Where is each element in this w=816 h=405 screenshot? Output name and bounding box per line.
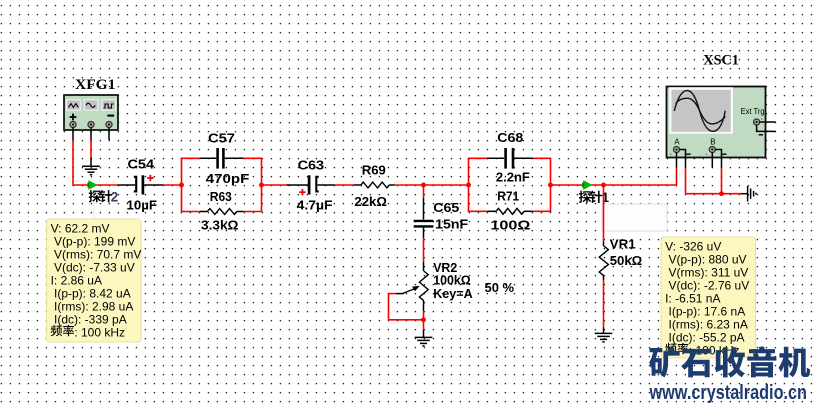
probe label 探针2 [89, 190, 119, 205]
svg-text:R69: R69 [362, 162, 386, 177]
svg-text:I: -6.51 nA: I: -6.51 nA [665, 292, 720, 306]
capacitor C57 [218, 148, 224, 169]
watermark www.crystalradio.cn [649, 382, 807, 404]
svg-text:15nF: 15nF [435, 216, 468, 231]
watermark 矿石收音机 [649, 346, 810, 377]
value label 3.3kΩ [201, 218, 239, 233]
svg-text:Key=A: Key=A [433, 286, 473, 301]
ground [595, 333, 613, 342]
label VR1 [610, 236, 636, 251]
node F junction [548, 183, 553, 188]
wire node G to VR1 [603, 185, 605, 246]
svg-text:R71: R71 [497, 188, 519, 203]
pin stub XFG1 - terminal [108, 127, 110, 140]
svg-text:I(rms): 2.98 uA: I(rms): 2.98 uA [54, 300, 133, 314]
value label Key=A [433, 286, 473, 301]
wire box2 bottom right [533, 210, 552, 212]
ground [415, 337, 433, 346]
svg-text:C65: C65 [433, 200, 459, 215]
ground [748, 186, 756, 202]
wire box1 top right [244, 157, 263, 159]
wire box1 to C63 [262, 184, 287, 186]
svg-text:I(rms): 6.23 nA: I(rms): 6.23 nA [669, 318, 748, 332]
probe label 探针1 [579, 190, 610, 205]
value label 100Ω [490, 217, 531, 232]
svg-text:50 %: 50 % [485, 280, 515, 295]
svg-text:4.7µF: 4.7µF [297, 197, 333, 212]
node A junction [179, 183, 184, 188]
resistor R69 lead left [354, 184, 361, 186]
pin stub XFG1 common terminal [90, 127, 92, 140]
label C54 [128, 157, 155, 172]
svg-text:A: A [674, 137, 680, 146]
node H junction [719, 191, 724, 196]
wire XFG1 common down [90, 140, 92, 157]
label C65 [433, 200, 459, 215]
wire box2 top right [533, 157, 552, 159]
resistor R71 [496, 208, 524, 214]
wire node D to ground [423, 320, 425, 338]
capacitor C54 [134, 175, 143, 194]
probe 探针1 arrow [583, 180, 592, 190]
wire box1 bottom right [244, 211, 263, 213]
value label 4.7µF [297, 197, 333, 212]
capacitor C54 lead right [144, 184, 163, 186]
node G junction [601, 183, 606, 188]
measurement box probe 1 [661, 237, 756, 358]
capacitor C54 polarity + [147, 175, 153, 181]
svg-text:V(dc): -2.76 uV: V(dc): -2.76 uV [669, 279, 750, 293]
probe tooltip box [602, 204, 667, 231]
svg-text:I(p-p): 8.42 uA: I(p-p): 8.42 uA [54, 287, 131, 301]
svg-text:B: B [710, 137, 715, 146]
wire ground lead [90, 157, 92, 166]
wire box1 top left [181, 157, 200, 159]
label C63 [298, 157, 325, 172]
svg-text:C54: C54 [128, 157, 155, 172]
node C junction [421, 183, 426, 188]
pin XSC1 B- [715, 150, 721, 168]
wire C63 to R69 [335, 184, 354, 186]
node E junction [466, 183, 471, 188]
value label 22kΩ [354, 194, 387, 209]
svg-text:V: -326 uV: V: -326 uV [665, 240, 721, 254]
wire box1 bottom left [181, 211, 200, 213]
value label 50kΩ [610, 253, 643, 268]
wire box1 left edge [181, 158, 183, 211]
label XFG1 [75, 77, 116, 93]
svg-text:V(rms): 311 uV: V(rms): 311 uV [669, 266, 749, 280]
capacitor C63 polarity + [299, 189, 305, 195]
svg-text:XFG1: XFG1 [75, 77, 116, 93]
svg-text:2: 2 [111, 190, 118, 205]
resistor R69 [361, 182, 389, 188]
potentiometer VR2 lead bottom [423, 301, 425, 311]
svg-text:470pF: 470pF [206, 171, 250, 186]
svg-text:Ext Trg: Ext Trg [741, 107, 765, 116]
svg-text:V: 62.2 mV: V: 62.2 mV [51, 222, 110, 236]
label VR2 [433, 260, 457, 275]
value label 470pF [206, 171, 250, 186]
label C68 [497, 130, 523, 145]
measurement box probe 2 [47, 219, 142, 342]
capacitor C63 [309, 175, 319, 194]
capacitor C63 lead left [286, 184, 307, 186]
svg-text:I(p-p): 17.6 nA: I(p-p): 17.6 nA [669, 305, 746, 319]
probe 探针2 arrow [88, 180, 97, 190]
wire XFG1 + down to main node [73, 140, 118, 186]
node B junction [259, 183, 264, 188]
value label 10µF [127, 197, 158, 212]
wire C54 to node A [163, 184, 182, 186]
svg-text:www.crystalradio.cn: www.crystalradio.cn [649, 382, 807, 404]
svg-text:VR1: VR1 [610, 236, 636, 251]
capacitor C65 lead bottom [423, 228, 425, 238]
wire scope A- to ground rail [686, 168, 742, 194]
wire box2 top left [468, 157, 488, 159]
resistor R69 lead right [389, 184, 394, 186]
svg-text:V(p-p): 880 uV: V(p-p): 880 uV [669, 253, 747, 267]
label XSC1 [703, 52, 739, 68]
ground lead [741, 193, 748, 195]
wire box1 right edge [261, 158, 263, 211]
pin XSC1 Ext Trg + [760, 121, 776, 123]
svg-text:R63: R63 [210, 189, 232, 204]
wire scope B- to ground rail [721, 168, 723, 194]
svg-text:C63: C63 [298, 157, 325, 172]
potentiometer VR2 wiper arrow [403, 286, 420, 294]
function generator XFG1 [64, 95, 118, 130]
svg-text:C68: C68 [497, 130, 523, 145]
svg-text:2.2nF: 2.2nF [496, 169, 530, 184]
wire box2 to scope [551, 168, 677, 186]
svg-text:I(dc): -339 pA: I(dc): -339 pA [54, 313, 127, 327]
value label 100kΩ [433, 272, 471, 287]
label R63 [210, 189, 232, 204]
resistor R71 lead left [487, 210, 496, 212]
capacitor C68 lead right [514, 157, 533, 159]
label R69 [362, 162, 386, 177]
capacitor C57 lead right [225, 157, 244, 159]
capacitor C54 lead left [118, 184, 136, 186]
svg-text:50kΩ: 50kΩ [610, 253, 643, 268]
capacitor C68 [506, 148, 513, 169]
svg-text:I(dc): -55.2 pA: I(dc): -55.2 pA [669, 331, 745, 345]
capacitor C68 lead left [487, 157, 504, 159]
pin XSC1 A- [679, 150, 685, 168]
wire VR2 bottom to node D [423, 311, 425, 320]
wire C65 to VR2 [423, 238, 425, 271]
oscilloscope XSC1 [667, 87, 766, 158]
svg-text:: 100 kHz: : 100 kHz [74, 326, 125, 340]
svg-text:V(dc): -7.33 uV: V(dc): -7.33 uV [54, 261, 135, 275]
svg-text:XSC1: XSC1 [703, 52, 739, 68]
value label 15nF [435, 216, 468, 231]
value label 2.2nF [496, 169, 530, 184]
svg-text:10µF: 10µF [127, 197, 158, 212]
resistor R63 lead left [200, 211, 207, 213]
node D junction [421, 317, 426, 322]
potentiometer VR2 [419, 271, 428, 301]
probe leader line [93, 197, 95, 219]
pin stub XFG1 + terminal [72, 127, 74, 140]
pin XSC1 A+ [676, 152, 678, 167]
wire VR2 wiper [389, 293, 424, 320]
pin XSC1 Ext Trg - [757, 125, 776, 131]
capacitor C63 lead right [317, 184, 334, 186]
pin XSC1 B+ [711, 152, 713, 167]
svg-text:V(p-p): 199 mV: V(p-p): 199 mV [54, 235, 135, 249]
wire box2 right edge [550, 158, 552, 211]
svg-text:C57: C57 [208, 130, 235, 145]
svg-text:22kΩ: 22kΩ [354, 194, 387, 209]
resistor R63 [207, 209, 237, 215]
resistor R71 lead right [524, 210, 533, 212]
wire box2 left edge [468, 158, 470, 211]
wire R69 to node C [395, 184, 469, 186]
capacitor C65 [414, 221, 434, 227]
wire node C down [423, 185, 425, 198]
capacitor C65 lead top [423, 198, 425, 220]
svg-text:I: 2.86 uA: I: 2.86 uA [51, 274, 102, 288]
resistor VR1 [599, 246, 608, 276]
label R71 [497, 188, 519, 203]
svg-text:3.3kΩ: 3.3kΩ [201, 218, 239, 233]
wire VR1 to ground [603, 276, 605, 334]
value label 50 % [485, 280, 515, 295]
capacitor C57 lead left [200, 157, 216, 159]
wire box2 bottom left [468, 210, 488, 212]
label C57 [208, 130, 235, 145]
resistor R63 lead right [237, 211, 244, 213]
svg-text:100Ω: 100Ω [490, 217, 531, 232]
svg-text:V(rms): 70.7 mV: V(rms): 70.7 mV [54, 248, 141, 262]
ground [82, 166, 100, 175]
